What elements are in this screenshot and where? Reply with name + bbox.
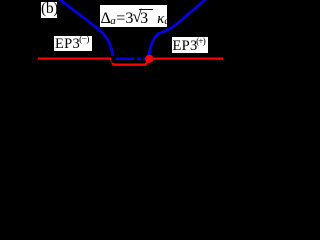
node A: panel label (b) (41, 2, 57, 18)
node C: label EP3(-) (54, 36, 92, 51)
node B: formula Delta_a = 3 sqrt(3) kappa_c (100, 5, 167, 27)
node D: label EP3(+) (172, 37, 208, 53)
wire: red lower branch between EPs (111, 59, 149, 65)
node EP3(-): black marker dot (111, 56, 115, 63)
wire: red main line right segment (149, 57, 224, 59)
wire: blue dashed degenerate branch between EPs (116, 57, 147, 60)
wire: red main line left segment (38, 57, 113, 59)
wire: eigenvalue curves SVG (0, 0, 228, 148)
wire: right blue branch curve (149, 0, 206, 56)
wire: left blue branch curve (58, 0, 113, 56)
node EP3(+): red marker dot (145, 55, 153, 63)
